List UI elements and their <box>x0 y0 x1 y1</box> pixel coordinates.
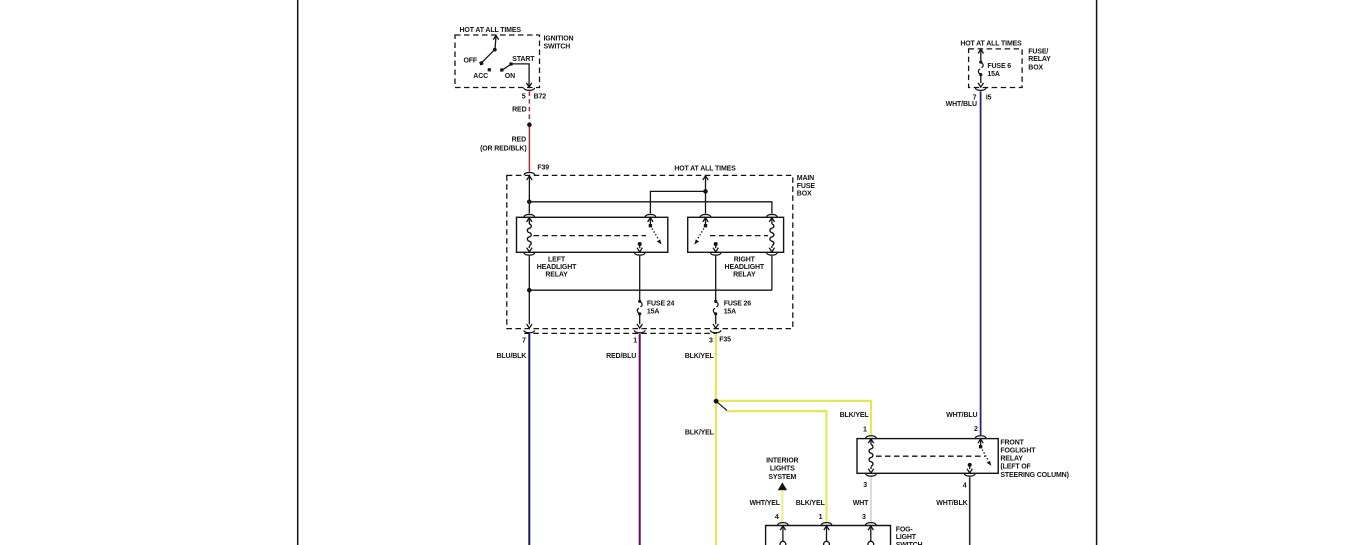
svg-text:15A: 15A <box>647 309 659 316</box>
svg-text:ON: ON <box>505 73 515 80</box>
contact ON <box>500 68 503 71</box>
feed arrow into main fuse box (hot at all times) <box>703 176 708 214</box>
svg-text:FUSE/: FUSE/ <box>1028 48 1048 55</box>
svg-text:RELAY: RELAY <box>1028 56 1051 63</box>
svg-text:BOX: BOX <box>1028 65 1043 72</box>
feed arrow into main fuse box from F39 <box>527 176 532 214</box>
contact START <box>509 62 512 65</box>
arrow to interior lights system <box>778 482 787 490</box>
svg-text:FUSE 26: FUSE 26 <box>724 301 752 308</box>
right relay switch pin arrow <box>703 218 708 226</box>
svg-text:15A: 15A <box>987 71 999 78</box>
svg-text:1: 1 <box>633 337 637 344</box>
right headlight relay box <box>688 217 784 252</box>
connector B72 cup <box>524 88 535 90</box>
wire RED (solid lower segment) <box>528 125 530 172</box>
wire RED/BLU <box>639 334 641 545</box>
fog relay switch pivot <box>979 445 982 448</box>
svg-text:FUSE: FUSE <box>797 183 816 190</box>
left relay coil bottom arrow <box>527 246 532 252</box>
fog relay coil bottom arrow <box>868 467 873 473</box>
ignition switch rotor arm to OFF <box>479 50 495 66</box>
right relay switch pivot <box>704 224 707 227</box>
svg-text:FOGLIGHT: FOGLIGHT <box>1000 448 1036 455</box>
wire right relay output to fuse 26 <box>715 256 717 300</box>
cup fog switch pin 4 <box>778 523 789 525</box>
svg-text:RELAY: RELAY <box>1000 456 1023 463</box>
fog relay coil <box>869 445 873 467</box>
black stub from junction to lower branch <box>716 401 727 411</box>
cup below main fuse box pin 3 <box>710 330 721 332</box>
cup fog relay pin 1 <box>866 436 877 438</box>
svg-text:OFF: OFF <box>464 58 478 65</box>
svg-text:4: 4 <box>775 514 779 521</box>
junction node on ground bus <box>527 288 532 293</box>
exit arrow left (pin 7) <box>527 290 532 328</box>
svg-text:STEERING COLUMN): STEERING COLUMN) <box>1000 472 1068 479</box>
wire fuse 6 to exit <box>978 75 983 88</box>
left relay switch pivot <box>649 224 652 227</box>
left relay switch arm <box>650 226 661 245</box>
svg-text:3: 3 <box>709 337 713 344</box>
fog relay switch arm <box>981 447 992 466</box>
svg-text:FRONT: FRONT <box>1000 439 1024 446</box>
svg-text:RELAY: RELAY <box>545 272 568 279</box>
svg-text:START: START <box>512 56 535 63</box>
svg-text:RED/BLU: RED/BLU <box>606 353 636 360</box>
left relay coil pin arrow <box>527 218 532 224</box>
svg-text:HOT AT ALL TIMES: HOT AT ALL TIMES <box>460 27 522 34</box>
svg-text:ACC: ACC <box>473 73 488 80</box>
svg-text:SYSTEM: SYSTEM <box>768 474 796 481</box>
battery feed arrow into ignition switch <box>493 36 498 50</box>
wire left relay coil to ground bus <box>528 256 530 290</box>
wire BLU/BLK <box>528 334 530 545</box>
fuse/relay box <box>969 49 1023 88</box>
svg-text:BLK/YEL: BLK/YEL <box>685 430 715 437</box>
svg-text:(LEFT OF: (LEFT OF <box>1000 464 1031 471</box>
right relay coil <box>770 224 774 246</box>
svg-text:1: 1 <box>863 426 867 433</box>
cup below fog relay pin 4 <box>964 474 975 476</box>
cup fog switch pin 1 <box>821 523 832 525</box>
cup below fuse/relay box <box>975 88 986 90</box>
feed arrow into fuse/relay box <box>978 49 983 60</box>
cup fog relay pin 2 <box>975 436 986 438</box>
wire WHT/YEL <box>781 490 783 522</box>
right relay internal dashed line <box>710 235 768 237</box>
svg-text:SWITCH: SWITCH <box>544 43 571 50</box>
svg-text:15A: 15A <box>724 309 736 316</box>
fog relay switch pin arrow <box>978 439 983 447</box>
svg-text:1: 1 <box>819 514 823 521</box>
wire WHT/BLK <box>969 477 971 545</box>
wire BLK/YEL upper <box>715 334 717 545</box>
right relay switch arm <box>694 226 705 245</box>
svg-text:I5: I5 <box>986 94 992 101</box>
terminal arrow out of ignition switch <box>526 83 531 87</box>
svg-text:LIGHT: LIGHT <box>896 534 917 541</box>
svg-text:WHT/YEL: WHT/YEL <box>749 500 780 507</box>
left headlight relay box <box>517 217 668 252</box>
svg-text:BLU/BLK: BLU/BLK <box>497 353 527 360</box>
wire BLK/YEL branch to fog relay pin 1 <box>716 401 871 435</box>
connector F39 cup <box>524 173 535 175</box>
wire fuse 26 to exit <box>713 314 718 328</box>
svg-text:F39: F39 <box>537 165 549 172</box>
right relay coil bottom arrow <box>769 246 774 252</box>
connector cup left relay coil pin <box>524 214 535 216</box>
right relay coil pin arrow <box>769 218 774 224</box>
connector cup right relay coil pin <box>767 214 778 216</box>
connector F35 strip (dashed) <box>524 332 717 334</box>
cup below right relay coil pin <box>767 253 778 255</box>
left relay switch pin arrow <box>648 218 653 226</box>
svg-text:LEFT: LEFT <box>548 256 566 263</box>
fog relay internal dashed line <box>876 455 985 457</box>
cup below main fuse box pin 7 <box>524 330 535 332</box>
ignition switch rotor pivot <box>493 48 497 52</box>
svg-text:WHT/BLU: WHT/BLU <box>946 412 977 419</box>
svg-text:3: 3 <box>862 514 866 521</box>
svg-text:BOX: BOX <box>797 190 812 197</box>
fuse F24 <box>637 300 642 316</box>
svg-text:7: 7 <box>522 337 526 344</box>
left relay coil <box>527 224 531 246</box>
svg-text:FUSE 24: FUSE 24 <box>647 301 675 308</box>
svg-text:WHT: WHT <box>853 500 869 507</box>
front foglight relay box <box>857 439 998 474</box>
fog relay output pin <box>967 463 972 473</box>
svg-text:WHT/BLU: WHT/BLU <box>946 101 977 108</box>
fog light switch box <box>766 526 891 545</box>
svg-text:3: 3 <box>863 482 867 489</box>
svg-text:FOG-: FOG- <box>896 527 914 534</box>
cup fog switch pin 3 <box>866 523 877 525</box>
fuse F26 <box>713 300 718 316</box>
wire left relay output to fuse 24 <box>639 256 641 300</box>
svg-text:4: 4 <box>963 483 967 490</box>
svg-text:HOT AT ALL TIMES: HOT AT ALL TIMES <box>674 165 736 172</box>
cup below left relay coil pin <box>524 253 535 255</box>
wire RED (dashed upper segment) <box>528 91 530 124</box>
junction node on F39 feed <box>527 200 532 205</box>
svg-text:LIGHTS: LIGHTS <box>770 466 795 473</box>
wire BLK/YEL branch to fog switch pin 1 <box>727 411 827 522</box>
ignition switch box <box>455 35 540 88</box>
svg-text:INTERIOR: INTERIOR <box>766 458 798 465</box>
left relay internal dashed line <box>534 235 647 237</box>
junction node on hot feed <box>703 189 708 194</box>
junction node on BLK/YEL wire <box>714 399 719 404</box>
svg-text:RED: RED <box>512 107 526 114</box>
svg-text:BLK/YEL: BLK/YEL <box>796 500 826 507</box>
svg-text:WHT/BLK: WHT/BLK <box>936 500 967 507</box>
svg-text:RELAY: RELAY <box>733 272 756 279</box>
svg-text:BLK/YEL: BLK/YEL <box>840 412 870 419</box>
svg-text:IGNITION: IGNITION <box>544 36 574 43</box>
coil ground bus <box>529 289 772 291</box>
svg-text:5: 5 <box>522 93 526 100</box>
cup below left relay output pin <box>634 253 645 255</box>
svg-text:2: 2 <box>974 426 978 433</box>
svg-text:FUSE 6: FUSE 6 <box>987 63 1011 70</box>
fog switch pin 4 contact <box>780 526 786 545</box>
wire WHT/BLU <box>980 91 982 435</box>
cup below fog relay pin 3 <box>866 474 877 476</box>
right relay output pin <box>713 242 718 252</box>
connector cup left relay switch pin <box>645 214 656 216</box>
svg-text:MAIN: MAIN <box>797 175 814 182</box>
wire from junction to left relay switch pin <box>650 191 705 213</box>
wire ON to START <box>503 64 511 69</box>
page border left <box>297 0 299 545</box>
svg-text:(OR RED/BLK): (OR RED/BLK) <box>480 146 526 153</box>
svg-text:F35: F35 <box>719 336 731 343</box>
cup below main fuse box pin 1 <box>634 330 645 332</box>
svg-text:HOT AT ALL TIMES: HOT AT ALL TIMES <box>960 40 1022 47</box>
svg-text:BLK/YEL: BLK/YEL <box>685 353 715 360</box>
main fuse box <box>507 175 793 328</box>
wire fuse 24 to exit <box>637 314 642 328</box>
fuse F6 <box>978 61 983 77</box>
page border right <box>1096 0 1098 545</box>
contact ACC <box>488 68 491 71</box>
fog switch pin 3 contact <box>868 526 874 545</box>
fog relay coil pin arrow <box>868 439 873 445</box>
junction on RED wire <box>527 123 532 128</box>
svg-text:RIGHT: RIGHT <box>734 256 756 263</box>
svg-text:HEADLIGHT: HEADLIGHT <box>725 264 765 271</box>
wire WHT <box>870 477 872 522</box>
wire from junction to right relay coil pin <box>529 202 772 214</box>
svg-text:B72: B72 <box>534 93 547 100</box>
wire START to output terminal <box>512 64 529 83</box>
cup below right relay output pin <box>710 253 721 255</box>
connector cup right relay switch pin <box>700 214 711 216</box>
left relay output pin <box>637 242 642 252</box>
svg-text:RED: RED <box>512 136 526 143</box>
svg-text:HEADLIGHT: HEADLIGHT <box>537 264 577 271</box>
wire right relay coil to ground bus <box>771 256 773 290</box>
fog switch pin 1 contact <box>824 526 830 545</box>
